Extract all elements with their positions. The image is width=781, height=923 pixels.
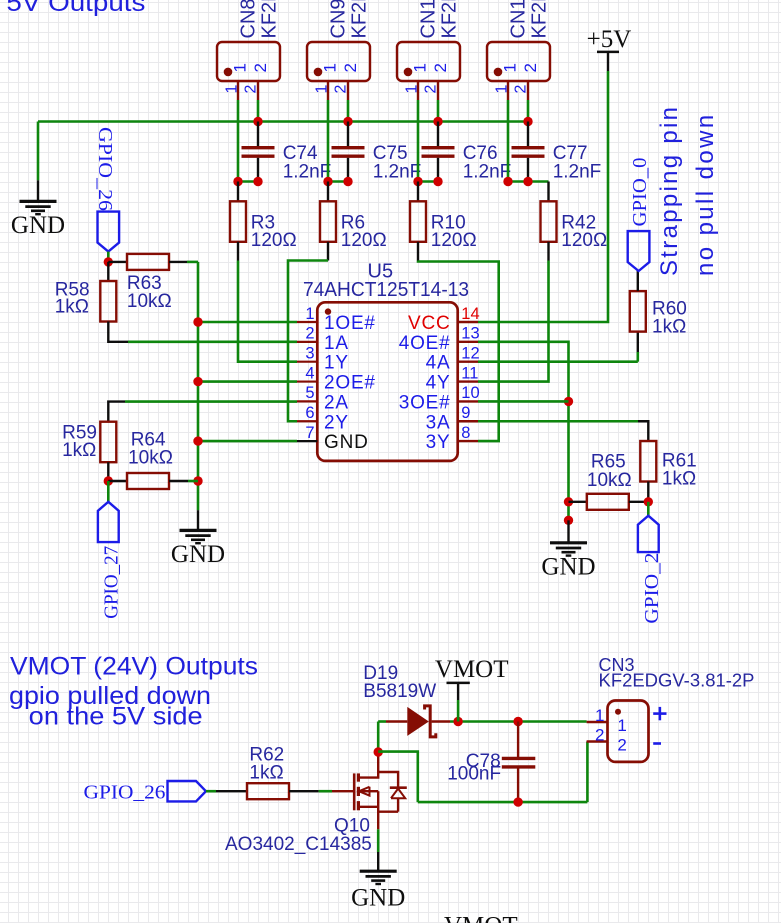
junction 3OE# — [564, 397, 573, 406]
wire CN8 pin2 to bus — [257, 100, 260, 122]
R64 left lead — [108, 480, 127, 482]
svg-text:GPIO_2: GPIO_2 — [641, 553, 663, 624]
C76 bottom lead — [437, 158, 439, 182]
resistor R10 — [410, 201, 426, 242]
ground GND far-left — [20, 201, 57, 214]
resistor R58 body — [100, 281, 116, 322]
svg-text:3: 3 — [305, 345, 314, 363]
svg-text:2A: 2A — [324, 392, 349, 413]
wire drain loop — [378, 752, 418, 803]
connector CN10 — [397, 42, 460, 81]
ground GND Q10 — [360, 871, 397, 884]
CN10 pin1 stub — [417, 81, 419, 100]
R61 bottom lead — [647, 482, 649, 502]
gnd lead q10 — [377, 852, 379, 871]
svg-text:4Y: 4Y — [426, 373, 451, 394]
U5 pin 8 stub — [458, 440, 478, 442]
svg-text:2: 2 — [251, 63, 270, 72]
svg-text:2: 2 — [513, 85, 530, 94]
wire R42-4Y — [478, 261, 549, 382]
connector CN8 — [217, 42, 280, 81]
svg-text:5V Outputs: 5V Outputs — [6, 0, 145, 17]
C78 bottom lead — [517, 768, 519, 802]
svg-text:14: 14 — [461, 305, 479, 323]
wire R6-2Y — [288, 261, 328, 422]
R64 right lead — [169, 480, 188, 482]
resistor R59 body — [100, 422, 116, 463]
C77 bottom lead — [527, 158, 529, 182]
junction R64/GND — [193, 476, 202, 485]
svg-text:120Ω: 120Ω — [251, 230, 297, 251]
junction GPIO_27 node — [104, 476, 113, 485]
svg-text:1: 1 — [231, 63, 250, 72]
wire to R42 — [508, 180, 549, 183]
U5 pin 12 stub — [458, 361, 478, 363]
vmot lead — [457, 683, 459, 700]
svg-text:B5819W: B5819W — [363, 681, 436, 702]
svg-text:7: 7 — [305, 424, 314, 442]
svg-text:Strapping pin: Strapping pin — [656, 105, 683, 276]
svg-text:1: 1 — [224, 85, 241, 94]
wire src — [377, 829, 380, 852]
R6 top lead — [327, 182, 329, 202]
wire gpio26 stub — [107, 252, 110, 262]
svg-text:10: 10 — [461, 384, 479, 402]
svg-text:2: 2 — [333, 85, 350, 94]
R63 right lead — [169, 261, 187, 263]
junction CN8 pin2 row — [253, 177, 262, 186]
ground GND mid-left — [180, 530, 217, 543]
svg-text:2: 2 — [617, 736, 626, 755]
svg-text:GND: GND — [351, 885, 405, 912]
svg-text:1: 1 — [595, 706, 604, 725]
svg-text:2: 2 — [341, 63, 360, 72]
svg-text:120Ω: 120Ω — [341, 230, 387, 251]
svg-text:4: 4 — [305, 364, 314, 382]
U5 pin 14 stub — [458, 321, 478, 323]
svg-text:2: 2 — [431, 63, 450, 72]
junction drain — [374, 747, 383, 756]
svg-text:KF2EDGV-3.81-2P: KF2EDGV-3.81-2P — [529, 0, 551, 39]
wire 4A — [478, 360, 638, 363]
R3 bottom lead — [237, 242, 239, 261]
CN9 pin2 stub — [347, 81, 349, 100]
R6 bottom lead — [327, 242, 329, 261]
R65 left lead — [569, 501, 587, 503]
wire R3-1Y — [238, 261, 297, 362]
svg-text:GND: GND — [324, 432, 369, 453]
wire CN11 pin2 to bus — [527, 100, 530, 122]
CN8 pin1 stub — [237, 81, 239, 100]
svg-text:5: 5 — [305, 384, 314, 402]
wire gate — [319, 790, 332, 793]
svg-text:VMOT: VMOT — [444, 912, 518, 923]
wire R63 out — [187, 261, 198, 264]
svg-text:4OE#: 4OE# — [399, 333, 451, 354]
svg-text:on the 5V side: on the 5V side — [29, 703, 203, 731]
svg-text:no pull down: no pull down — [692, 112, 719, 276]
svg-text:8: 8 — [461, 424, 470, 442]
R59 top lead — [108, 402, 125, 422]
svg-text:CN10: CN10 — [418, 0, 440, 39]
wire CN8 pin1 down — [237, 100, 240, 182]
R65 right lead — [629, 501, 649, 503]
op-amp U5 74AHCT125T14-13 — [317, 302, 457, 461]
gnd lead — [37, 180, 39, 201]
svg-text:CN9: CN9 — [328, 0, 350, 39]
wire pin7 gnd — [198, 440, 297, 443]
junction bus x438 — [433, 117, 442, 126]
svg-text:1: 1 — [314, 85, 331, 94]
svg-text:1.2nF: 1.2nF — [553, 162, 602, 183]
svg-text:74AHCT125T14-13: 74AHCT125T14-13 — [303, 279, 469, 301]
svg-text:1kΩ: 1kΩ — [652, 317, 686, 338]
wire x198 column — [197, 262, 200, 510]
C75 bottom lead — [347, 158, 349, 182]
wire R60 drop — [636, 352, 639, 362]
svg-text:1: 1 — [501, 63, 520, 72]
resistor R65 body — [587, 494, 629, 510]
junction CN9 pin2 row — [343, 177, 352, 186]
wire gpio2 stub — [647, 502, 650, 516]
svg-text:GPIO_0: GPIO_0 — [629, 158, 651, 227]
svg-text:10kΩ: 10kΩ — [128, 448, 173, 469]
svg-text:KF2EDGV-3.81-2P: KF2EDGV-3.81-2P — [259, 0, 281, 39]
junction vmot — [453, 717, 462, 726]
svg-text:1kΩ: 1kΩ — [62, 440, 96, 461]
R58 top lead — [107, 262, 109, 281]
C74 top lead — [257, 122, 259, 147]
wire CN10 pair — [418, 180, 438, 183]
svg-text:1: 1 — [321, 63, 340, 72]
junction CN10 pin1 row — [413, 177, 422, 186]
wire vmot stub — [457, 700, 460, 722]
R61 top lead — [638, 421, 648, 441]
svg-text:120Ω: 120Ω — [561, 230, 607, 251]
svg-text:CN11: CN11 — [508, 0, 530, 39]
svg-text:CN8: CN8 — [238, 0, 260, 39]
svg-text:13: 13 — [461, 325, 479, 343]
R59 bottom lead — [107, 462, 109, 481]
gnd right lead — [567, 520, 569, 543]
svg-text:AO3402_C14385: AO3402_C14385 — [225, 834, 372, 855]
capacitor C77 — [512, 148, 545, 157]
junction CN9 pin1 row — [323, 177, 332, 186]
wire R64 out — [188, 480, 198, 483]
svg-text:12: 12 — [461, 345, 479, 363]
svg-text:2: 2 — [423, 85, 440, 94]
svg-text:1: 1 — [305, 305, 314, 323]
CN10 pin2 stub — [437, 81, 439, 100]
resistor R62 body — [247, 783, 289, 799]
svg-text:4A: 4A — [426, 353, 451, 374]
junction GPIO_26 node — [104, 257, 113, 266]
junction bus x348 — [343, 117, 352, 126]
wire 2OE# — [198, 380, 297, 383]
wire 1A — [128, 340, 297, 343]
U5 pin 3 stub — [297, 361, 317, 363]
capacitor C76 — [422, 148, 455, 157]
svg-text:VMOT: VMOT — [435, 656, 509, 683]
wire bottom — [418, 801, 588, 804]
svg-text:1: 1 — [404, 85, 421, 94]
CN11 pin1 stub — [507, 81, 509, 100]
svg-text:1OE#: 1OE# — [324, 313, 376, 334]
svg-text:3OE#: 3OE# — [399, 392, 451, 413]
svg-text:1: 1 — [617, 716, 626, 735]
U5 pin 1 stub — [297, 321, 317, 323]
svg-text:2OE#: 2OE# — [324, 373, 376, 394]
svg-text:1: 1 — [494, 85, 511, 94]
junction pin7 gnd — [193, 436, 202, 445]
ground GND right — [550, 543, 587, 556]
C75 top lead — [347, 122, 349, 147]
junction CN8 pin1 row — [233, 177, 242, 186]
wire gpio27 stub — [107, 481, 110, 502]
svg-text:100nF: 100nF — [447, 763, 501, 784]
CN9 pin1 stub — [327, 81, 329, 100]
svg-text:KF2EDGV-3.81-2P: KF2EDGV-3.81-2P — [439, 0, 461, 39]
svg-text:KF2EDGV-3.81-2P: KF2EDGV-3.81-2P — [599, 670, 755, 690]
wire gpio26b — [206, 790, 216, 793]
CN8 pin2 stub — [257, 81, 259, 100]
svg-text:2: 2 — [243, 85, 260, 94]
wire CN10 pin1 down — [417, 100, 420, 182]
svg-text:GPIO_27: GPIO_27 — [101, 546, 123, 619]
connector CN3 — [608, 701, 649, 762]
CN3 pin2 stub — [587, 740, 608, 742]
R62 right lead — [289, 790, 319, 792]
R62 left lead — [216, 790, 247, 792]
junction gnd right — [564, 516, 573, 525]
wire 3A — [478, 420, 638, 423]
C78 top lead — [517, 722, 519, 758]
svg-text:GPIO_26: GPIO_26 — [84, 782, 166, 804]
wire CN9 pin1 down — [327, 100, 330, 182]
U5 pin 13 stub — [458, 341, 478, 343]
junction CN11 pin2 row — [523, 177, 532, 186]
junction CN11 pin1 row — [503, 177, 512, 186]
R10 top lead — [417, 182, 419, 202]
wire CN11 pin1 down — [507, 100, 510, 182]
wire R10-3Y — [418, 261, 499, 442]
svg-text:2: 2 — [305, 325, 314, 343]
R42 top lead — [547, 182, 549, 202]
U5 pin 11 stub — [458, 380, 478, 382]
svg-text:10kΩ: 10kΩ — [127, 291, 172, 312]
svg-text:6: 6 — [305, 404, 314, 422]
junction bus x258 — [253, 117, 262, 126]
svg-text:1kΩ: 1kΩ — [55, 296, 89, 317]
wire CN8 pair — [238, 180, 258, 183]
C74 bottom lead — [257, 158, 259, 182]
wire VCC — [478, 71, 608, 322]
capacitor C74 — [242, 148, 275, 157]
junction c78 top — [513, 717, 522, 726]
R42 bottom lead — [547, 242, 549, 261]
svg-text:2: 2 — [521, 63, 540, 72]
U5 pin 7 stub — [297, 440, 317, 442]
svg-text:GND: GND — [541, 553, 595, 580]
transistor Q10 — [332, 753, 407, 829]
gnd lead mid-left — [197, 510, 199, 530]
junction GPIO_2 node — [644, 497, 653, 506]
C77 top lead — [527, 122, 529, 147]
net label GPIO_0 — [628, 231, 650, 271]
wire drain up — [377, 722, 380, 753]
resistor R64 body — [127, 473, 169, 489]
U5 pin 5 stub — [297, 400, 317, 402]
CN3 plus/minus — [653, 707, 666, 744]
svg-text:2: 2 — [595, 726, 604, 745]
connector CN11 — [487, 42, 550, 81]
wire CN9 pin2 to bus — [347, 100, 350, 122]
capacitor C75 — [332, 148, 365, 157]
svg-text:GPIO_26: GPIO_26 — [94, 127, 116, 211]
wire bus y121 — [38, 120, 528, 123]
svg-text:GND: GND — [11, 212, 65, 239]
svg-text:2Y: 2Y — [324, 412, 349, 433]
connector CN9 — [307, 42, 370, 81]
CN3 pin1 stub — [587, 721, 608, 723]
wire 1OE# — [198, 321, 297, 324]
junction bus x528 — [523, 117, 532, 126]
svg-text:VMOT (24V) Outputs: VMOT (24V) Outputs — [10, 653, 258, 681]
U5 pin 10 stub — [458, 400, 478, 402]
svg-text:10kΩ: 10kΩ — [587, 470, 632, 491]
svg-text:1A: 1A — [324, 333, 349, 354]
wire CN9 pair — [328, 180, 348, 183]
U5 pin 9 stub — [458, 420, 478, 422]
junction CN10 pin2 row — [433, 177, 442, 186]
wire vmot net — [450, 720, 587, 723]
wire anode — [378, 720, 386, 723]
resistor R3 — [230, 201, 246, 242]
wire cn3 pin2 — [586, 742, 589, 803]
junction R65 left — [564, 497, 573, 506]
R10 bottom lead — [417, 242, 419, 261]
junction 2OE# — [193, 377, 202, 386]
svg-text:11: 11 — [461, 364, 478, 382]
resistor R60 body — [630, 291, 646, 332]
wire 2A — [125, 400, 297, 403]
svg-text:KF2EDGV-3.81-2P: KF2EDGV-3.81-2P — [349, 0, 371, 39]
svg-text:1Y: 1Y — [324, 353, 349, 374]
svg-text:1kΩ: 1kΩ — [662, 468, 696, 489]
net label GPIO_26 (top) — [98, 212, 120, 252]
resistor R42 — [541, 201, 557, 242]
junction 1OE# — [193, 317, 202, 326]
wire CN10 pin2 to bus — [437, 100, 440, 122]
U5 pin 4 stub — [297, 380, 317, 382]
U5 pin 6 stub — [297, 420, 317, 422]
svg-text:9: 9 — [461, 404, 470, 422]
R60 top lead — [637, 271, 639, 291]
wire OE tie — [478, 342, 569, 523]
svg-text:3A: 3A — [426, 412, 451, 433]
R63 left lead — [108, 261, 127, 263]
svg-text:VCC: VCC — [408, 313, 451, 334]
svg-text:+5V: +5V — [587, 26, 632, 53]
R3 top lead — [237, 182, 239, 202]
svg-text:3Y: 3Y — [426, 432, 451, 453]
CN11 pin2 stub — [527, 81, 529, 100]
resistor R61 body — [640, 441, 656, 482]
wire left GND drop — [37, 122, 40, 181]
C76 top lead — [437, 122, 439, 147]
svg-text:120Ω: 120Ω — [431, 230, 477, 251]
junction c78 bottom — [513, 797, 522, 806]
R60 bottom lead — [637, 332, 639, 352]
U5 pin 2 stub — [297, 341, 317, 343]
resistor R63 body — [127, 254, 169, 270]
R58 bottom lead — [108, 322, 128, 342]
+5V lead — [607, 52, 609, 71]
svg-text:1kΩ: 1kΩ — [249, 762, 283, 783]
resistor R6 — [320, 201, 336, 242]
svg-text:1: 1 — [411, 63, 430, 72]
wire 3OE# — [478, 400, 569, 403]
svg-text:GND: GND — [171, 541, 225, 568]
